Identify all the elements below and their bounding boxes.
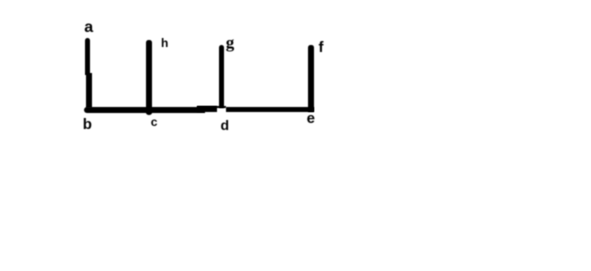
wire baseline segment b-to-mid (84, 107, 205, 113)
node label b (83, 117, 92, 132)
node label g (226, 34, 235, 51)
wire a-b upper segment (85, 38, 90, 75)
wire baseline bridge over notch at d (197, 106, 226, 108)
wire f-e vertical (308, 45, 314, 112)
node label h (161, 37, 168, 49)
node label e (307, 111, 315, 126)
node label d (221, 118, 230, 132)
wire baseline mid overlap segment (197, 106, 217, 111)
node label c (151, 116, 158, 128)
wire g-d vertical (219, 45, 224, 108)
wire a-b lower segment (86, 73, 91, 108)
node label f (319, 40, 324, 55)
node label a (84, 20, 93, 36)
wire baseline segment d-to-e (226, 107, 314, 112)
wire h-c vertical (146, 40, 151, 115)
